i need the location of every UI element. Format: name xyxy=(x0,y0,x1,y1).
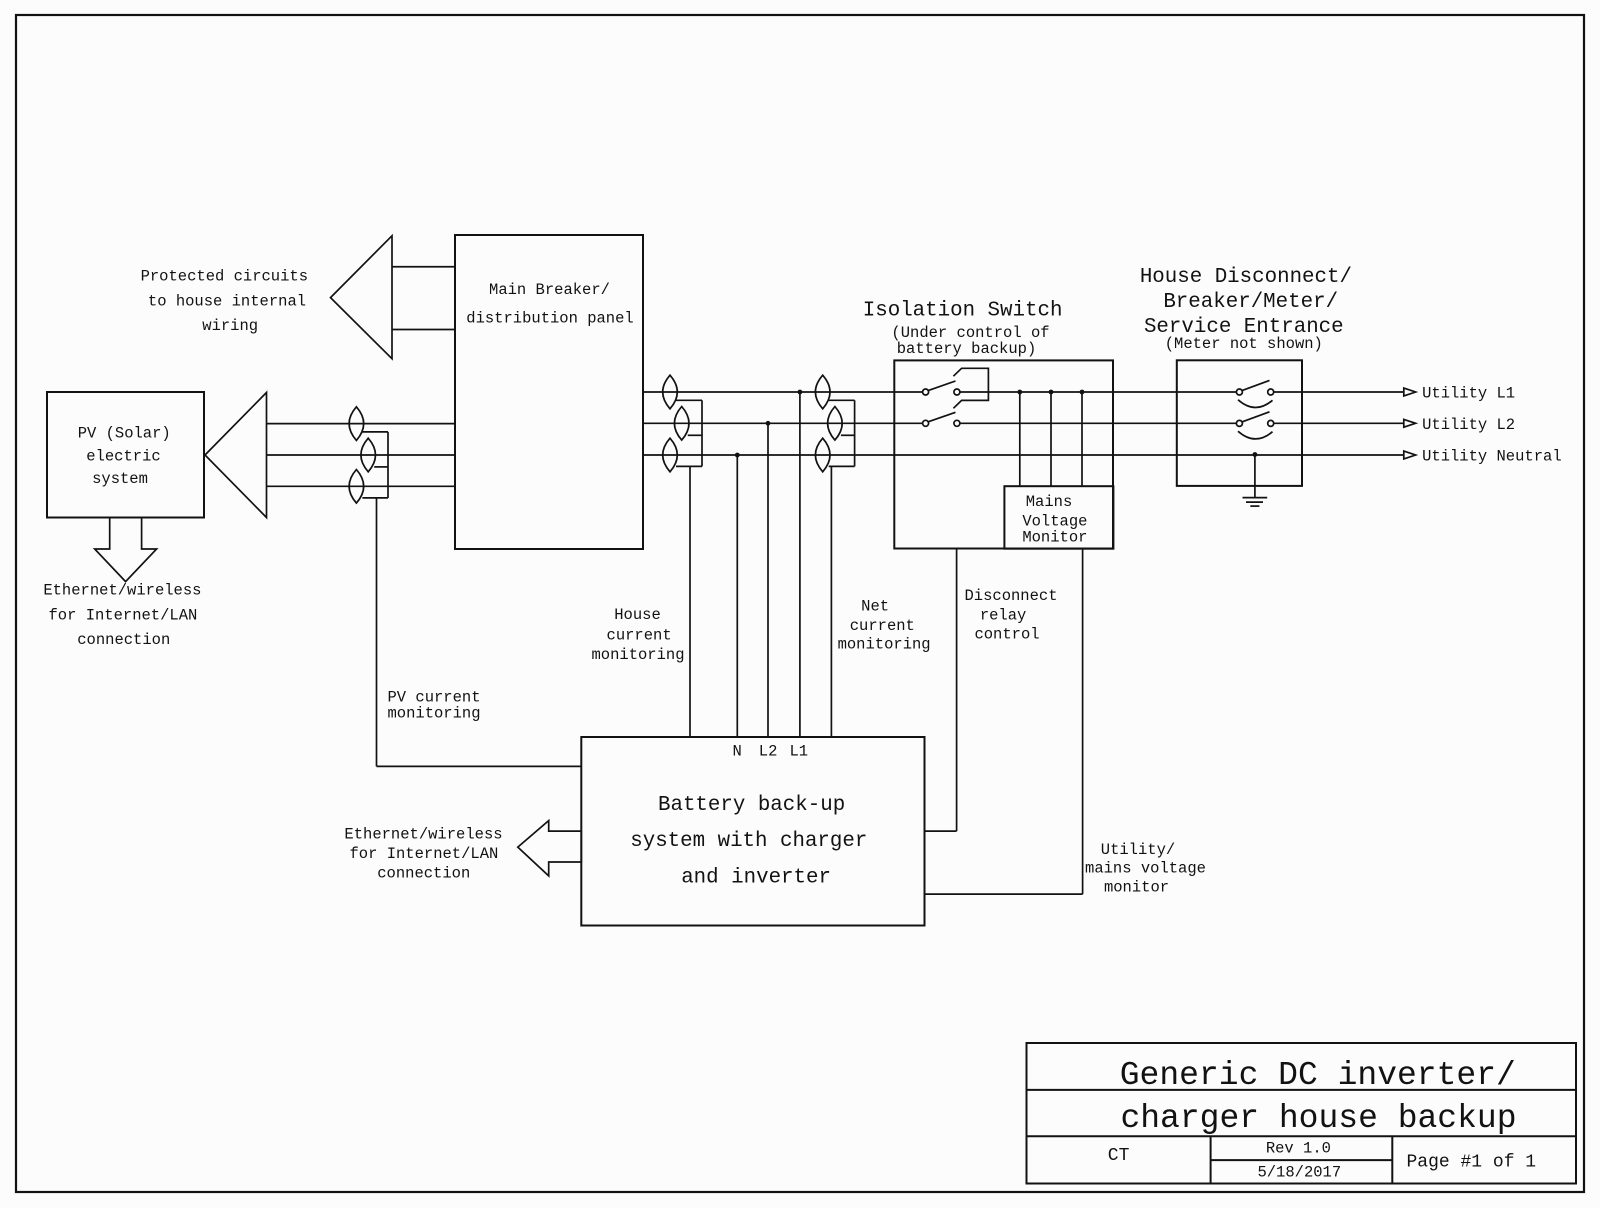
wire house CT stub 1 xyxy=(676,399,702,401)
switch isolation L1 terminal right xyxy=(954,389,960,395)
title block vertical 2 xyxy=(1391,1136,1393,1183)
svg-text:monitoring: monitoring xyxy=(838,636,931,654)
svg-text:connection: connection xyxy=(377,864,470,882)
svg-text:electric: electric xyxy=(86,447,160,465)
svg-text:Utility Neutral: Utility Neutral xyxy=(1422,447,1562,465)
switch isolation L1 blade xyxy=(929,381,956,390)
svg-text:Breaker/Meter/: Breaker/Meter/ xyxy=(1163,291,1338,314)
svg-text:Isolation Switch: Isolation Switch xyxy=(863,299,1063,322)
svg-text:Utility/: Utility/ xyxy=(1101,841,1175,859)
wire PV CT bus xyxy=(387,432,389,498)
Ethernet down arrow from PV system xyxy=(95,518,157,582)
wire L1 isolation to house disconnect xyxy=(1113,391,1177,393)
wire net CT stub 2 xyxy=(841,434,855,436)
svg-text:Battery back-up: Battery back-up xyxy=(658,794,845,817)
svg-text:Mains: Mains xyxy=(1026,493,1073,511)
svg-text:Monitor: Monitor xyxy=(1022,529,1087,547)
svg-text:wiring: wiring xyxy=(202,317,258,335)
svg-text:Disconnect: Disconnect xyxy=(964,587,1057,605)
svg-text:Utility L1: Utility L1 xyxy=(1422,385,1515,403)
CT sensor net neutral xyxy=(815,438,830,472)
svg-text:L2: L2 xyxy=(759,742,778,760)
svg-text:current: current xyxy=(850,617,915,635)
svg-text:for Internet/LAN: for Internet/LAN xyxy=(48,606,197,624)
breaker house L1 arc xyxy=(1238,400,1273,408)
junction node MVM feed 1 xyxy=(1017,390,1022,395)
wire PV line 3 xyxy=(267,485,456,487)
svg-text:Utility L2: Utility L2 xyxy=(1422,416,1515,434)
wire L1 main panel to isolation switch xyxy=(643,391,894,393)
wire PV line 1 xyxy=(267,423,456,425)
svg-text:monitor: monitor xyxy=(1104,878,1169,896)
wire neutral ground drop xyxy=(1254,455,1256,498)
switch isolation L2 terminal left xyxy=(923,420,929,426)
Battery back-up system box xyxy=(581,737,924,926)
PV (Solar) electric system box xyxy=(47,392,204,518)
CT sensor PV line 2 xyxy=(361,438,376,472)
svg-text:L1: L1 xyxy=(789,742,808,760)
wire PV CT stub 1 xyxy=(362,431,388,433)
svg-text:House Disconnect/: House Disconnect/ xyxy=(1140,266,1352,289)
wire mains voltage monitor feed 3 xyxy=(1081,392,1083,486)
switch isolation L1 terminal left xyxy=(923,389,929,395)
wire L1 inside house disconnect left xyxy=(1177,391,1237,393)
junction node neutral ground xyxy=(1253,452,1258,457)
wire L2 drop to battery xyxy=(767,423,769,737)
switch isolation L2 blade xyxy=(929,412,956,421)
wire L2 inside isolation switch right xyxy=(960,422,1113,424)
junction node neutral battery drop xyxy=(735,453,740,458)
switch isolation L2 terminal right xyxy=(954,420,960,426)
wire L2 inside house disconnect right xyxy=(1274,422,1302,424)
wire L1 drop to battery xyxy=(799,392,801,737)
wire L1 inside isolation switch right xyxy=(960,391,1113,393)
breaker house L2 terminal left xyxy=(1236,420,1242,426)
junction node L1 battery drop xyxy=(798,390,803,395)
breaker house L1 blade xyxy=(1242,380,1269,390)
wire protected circuits shaft bottom xyxy=(392,329,455,331)
svg-text:system with charger: system with charger xyxy=(630,830,867,853)
breaker house L2 terminal right xyxy=(1268,420,1274,426)
svg-text:control: control xyxy=(974,625,1039,643)
wire L2 inside isolation switch left xyxy=(894,422,922,424)
wire disconnect relay control vertical xyxy=(956,549,958,832)
svg-text:mains voltage: mains voltage xyxy=(1085,860,1206,878)
wire net CT bus xyxy=(854,400,856,466)
wire house current monitoring drop xyxy=(689,466,691,737)
wire PV CT stub 3 xyxy=(362,497,388,499)
arrowhead utility L2 xyxy=(1404,419,1416,427)
arrow from PV system to main breaker panel xyxy=(205,393,267,518)
CT sensor house L1 xyxy=(663,375,678,409)
breaker house L2 blade xyxy=(1242,412,1269,422)
svg-text:Ethernet/wireless: Ethernet/wireless xyxy=(43,582,201,600)
Mains Voltage Monitor box xyxy=(1004,486,1113,549)
svg-text:N: N xyxy=(732,742,741,760)
wire mains voltage monitor feed 2 xyxy=(1050,392,1052,486)
svg-text:distribution panel: distribution panel xyxy=(466,310,633,328)
wire L1 to utility xyxy=(1302,391,1404,393)
svg-text:monitoring: monitoring xyxy=(591,646,684,664)
svg-text:Protected circuits: Protected circuits xyxy=(141,268,308,286)
Isolation Switch box xyxy=(894,360,1113,548)
wire house CT stub 2 xyxy=(688,434,702,436)
svg-text:monitoring: monitoring xyxy=(388,704,481,722)
wire L2 to utility xyxy=(1302,422,1404,424)
CT sensor house neutral xyxy=(663,438,678,472)
CT sensor PV line 1 xyxy=(349,407,364,441)
svg-text:battery backup): battery backup) xyxy=(897,340,1037,358)
wire PV current monitoring to battery xyxy=(377,765,582,767)
svg-text:and inverter: and inverter xyxy=(681,866,831,889)
svg-text:Rev 1.0: Rev 1.0 xyxy=(1266,1140,1331,1158)
wire disconnect relay control horizontal xyxy=(925,830,957,832)
CT sensor net L1 xyxy=(815,375,830,409)
wire L2 inside house disconnect left xyxy=(1177,422,1237,424)
CT sensor PV line 3 xyxy=(349,470,364,504)
Ethernet left arrow from battery xyxy=(518,821,582,876)
breaker house L2 arc xyxy=(1238,431,1273,439)
wire PV CT stub 2 xyxy=(374,466,388,468)
svg-text:5/18/2017: 5/18/2017 xyxy=(1257,1164,1341,1182)
svg-text:for Internet/LAN: for Internet/LAN xyxy=(349,845,498,863)
wire net CT stub 1 xyxy=(829,399,855,401)
wire PV current monitoring drop xyxy=(376,498,378,767)
svg-text:connection: connection xyxy=(77,631,170,649)
wire utility mains voltage monitor vertical xyxy=(1082,549,1084,894)
wire net current monitoring drop xyxy=(830,466,832,737)
ground symbol xyxy=(1243,497,1268,499)
svg-text:(Meter not shown): (Meter not shown) xyxy=(1165,335,1323,353)
svg-text:PV (Solar): PV (Solar) xyxy=(78,425,171,443)
junction node MVM feed 3 xyxy=(1080,390,1085,395)
Main Breaker / distribution panel box xyxy=(455,235,643,549)
title block row line 1 xyxy=(1027,1089,1577,1091)
svg-text:relay: relay xyxy=(980,607,1027,625)
svg-text:Net: Net xyxy=(861,598,889,616)
title block outer xyxy=(1027,1043,1577,1184)
CT sensor net L2 xyxy=(828,407,843,441)
junction node MVM feed 2 xyxy=(1049,390,1054,395)
wire neutral drop to battery xyxy=(736,455,738,737)
junction node L2 battery drop xyxy=(766,421,771,426)
svg-text:CT: CT xyxy=(1108,1146,1130,1166)
wire net CT stub 3 xyxy=(829,465,855,467)
CT sensor house L2 xyxy=(674,407,689,441)
svg-text:system: system xyxy=(92,470,148,488)
wire L2 main panel to isolation switch xyxy=(643,422,894,424)
arrow protected circuits to house wiring xyxy=(331,236,393,359)
wire protected circuits shaft top xyxy=(392,266,455,268)
svg-text:charger house backup: charger house backup xyxy=(1120,1100,1516,1137)
House Disconnect box xyxy=(1177,360,1302,486)
wire L1 inside isolation switch left xyxy=(894,391,922,393)
wire house CT stub 3 xyxy=(676,465,702,467)
svg-text:to house internal: to house internal xyxy=(148,292,306,310)
svg-text:Generic DC inverter/: Generic DC inverter/ xyxy=(1120,1057,1516,1094)
wire house CT bus xyxy=(701,400,703,466)
switch isolation actuator linkage xyxy=(953,368,988,408)
wire PV line 2 xyxy=(267,454,456,456)
svg-text:House: House xyxy=(614,606,661,624)
svg-text:Main Breaker/: Main Breaker/ xyxy=(489,281,610,299)
wire mains voltage monitor feed 1 xyxy=(1019,392,1021,486)
breaker house L1 terminal left xyxy=(1236,389,1242,395)
title block vertical 1 xyxy=(1210,1136,1212,1183)
breaker house L1 terminal right xyxy=(1268,389,1274,395)
arrowhead utility L1 xyxy=(1404,388,1416,396)
title block row line 2 xyxy=(1027,1135,1577,1137)
svg-text:current: current xyxy=(607,627,672,645)
svg-text:Ethernet/wireless: Ethernet/wireless xyxy=(344,825,502,843)
wire L1 inside house disconnect right xyxy=(1274,391,1302,393)
wire L2 isolation to house disconnect xyxy=(1113,422,1177,424)
title block rev divider xyxy=(1211,1159,1393,1161)
wire neutral main panel to utility xyxy=(643,454,1404,456)
svg-text:Page #1 of 1: Page #1 of 1 xyxy=(1406,1153,1536,1173)
wire utility mains voltage monitor horizontal xyxy=(925,893,1083,895)
arrowhead utility neutral xyxy=(1404,451,1416,459)
